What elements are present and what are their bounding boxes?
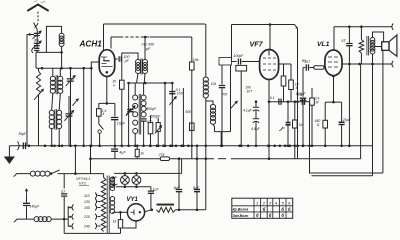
resistor R box lower <box>190 123 195 131</box>
svg-text:130: 130 <box>84 200 90 204</box>
capacitor C 4.1uF coupling <box>255 102 257 108</box>
svg-text:220: 220 <box>83 215 90 219</box>
dial lamp 2 <box>132 176 141 185</box>
svg-text:B9: B9 <box>302 59 306 63</box>
svg-text:4,1µF: 4,1µF <box>243 109 253 113</box>
resistor grid leak box <box>236 65 247 71</box>
wire osc bottom row <box>213 124 231 131</box>
resistor R screen box2 <box>290 64 292 80</box>
capacitor C 8uF filter2 <box>196 146 198 189</box>
capacitor C 0.1 on column <box>169 92 175 94</box>
oscillator coil L4 <box>203 77 208 82</box>
output terminal top <box>392 24 393 30</box>
svg-text:1: 1 <box>256 200 258 205</box>
svg-text:27k: 27k <box>158 153 165 157</box>
svg-text:0,1: 0,1 <box>270 96 275 100</box>
wire mains1 to transformer <box>64 173 103 175</box>
svg-text:25µF: 25µF <box>342 118 352 122</box>
wire lamp bottom row <box>116 186 151 188</box>
trimmer arrow mid <box>170 97 177 105</box>
wire column x165 <box>164 83 166 146</box>
capacitor C 10T grid VL1 <box>306 64 308 70</box>
svg-text:VF7: VF7 <box>250 40 264 49</box>
resistor R 27k pill <box>160 157 169 161</box>
capacitor C 700 osc <box>221 65 223 85</box>
wire VF7 top cap drop <box>269 25 271 50</box>
resistor R 1k VY1 filament <box>120 212 122 219</box>
power transformer HT winding <box>110 197 115 202</box>
svg-text:10µF: 10µF <box>117 121 126 125</box>
svg-text:240: 240 <box>83 225 90 229</box>
capacitor C 0.1 detector <box>279 99 281 105</box>
wire VL1 cathode <box>333 77 335 102</box>
power transformer T3 primary <box>101 178 106 232</box>
wire drop to IF coil <box>144 37 146 60</box>
wire left antenna branch <box>27 35 30 142</box>
voltage selector plug contacts <box>67 206 69 226</box>
wire detector row y101.7 <box>269 101 310 103</box>
wire VL1 grid row <box>303 67 305 69</box>
wire VF7 cathode <box>268 80 270 159</box>
wire top rail loop3 <box>334 26 392 28</box>
capacitor C 100uF coupling <box>119 56 121 62</box>
wire osc column <box>205 98 207 210</box>
wire lamp top row <box>114 172 182 174</box>
trimmer capacitor antenna C4 <box>36 36 38 44</box>
svg-text:б: б <box>256 213 259 218</box>
resistor R 1.5k cathode <box>98 103 100 108</box>
wire VY1 bottom <box>123 221 136 228</box>
capacitor C ground connector 30pF <box>18 142 20 151</box>
wire cathode network row <box>325 101 341 103</box>
loudspeaker <box>382 42 389 51</box>
variable capacitor C2 tuning <box>68 96 70 114</box>
resistor R 450 cathode <box>324 102 326 120</box>
power transformer core <box>106 176 108 234</box>
svg-text:4,5µF: 4,5µF <box>251 127 261 131</box>
wire ACH1 grid column <box>91 62 99 146</box>
svg-text:k: k <box>113 83 115 87</box>
tuned coil L2a/L2b with core <box>52 68 54 76</box>
wire speaker link <box>375 46 382 48</box>
svg-text:VY1: VY1 <box>127 197 139 203</box>
tuned coil L3a/L3b with core <box>49 110 54 115</box>
svg-text:600pF: 600pF <box>146 107 157 111</box>
wire VY1 output <box>145 210 152 212</box>
trimmer capacitor 600pF <box>127 110 133 112</box>
svg-text:VL1: VL1 <box>317 41 330 48</box>
switch tone <box>99 116 104 129</box>
svg-text:1k: 1k <box>113 220 117 224</box>
capacitor C 300 across winding <box>141 119 147 121</box>
resistor R 1k box <box>136 146 138 150</box>
trimmer capacitor antenna C3 <box>34 33 40 35</box>
svg-text:110: 110 <box>84 194 90 198</box>
wire column x172 <box>171 83 173 146</box>
wire columns to bus right section <box>220 132 222 146</box>
wire line B y158.7 <box>90 146 92 174</box>
wire top rail loop1 <box>104 23 206 25</box>
mains lead 2 <box>14 219 34 222</box>
svg-text:Зап.Волн: Зап.Волн <box>233 214 249 218</box>
capacitor C 25uF cathode <box>341 102 343 122</box>
capacitor series antenna <box>36 46 38 49</box>
svg-text:10k: 10k <box>193 58 199 62</box>
capacitor C 4uF <box>114 146 116 149</box>
wire column bus to mains <box>74 146 76 174</box>
resistor R 2.4 box <box>311 88 313 98</box>
mains switch <box>52 170 65 174</box>
wire coil L2 to L3 <box>52 93 53 110</box>
capacitor C 8uF filter1 <box>178 159 180 189</box>
tube VL1 electrodes <box>328 57 338 67</box>
antenna coupling coil L1 <box>46 26 61 52</box>
wire ACH1 cathode <box>106 77 108 104</box>
wire rail1 right drop (oscillator feed) <box>205 24 207 77</box>
svg-text:10T: 10T <box>246 90 253 94</box>
oscillator coil L5 <box>206 101 213 104</box>
wire plate row VL1 y64 <box>342 63 392 65</box>
wire top rail loop2 <box>232 25 298 29</box>
resistor R 10k osc <box>190 62 195 70</box>
svg-text:4µF: 4µF <box>119 150 126 154</box>
dial lamp 1 <box>121 176 130 185</box>
wire cathode network <box>99 102 115 104</box>
wire bottom return <box>64 232 120 234</box>
wire grid return row <box>129 82 173 84</box>
rectifier tube VY1 <box>127 204 144 221</box>
svg-text:б: б <box>288 207 291 212</box>
antenna <box>28 5 48 11</box>
svg-text:б: б <box>263 207 266 212</box>
wire AVC line y37 <box>111 36 120 38</box>
ground bus <box>9 145 372 147</box>
wire line B right riser <box>360 64 362 159</box>
potentiometer R1 <box>38 68 40 71</box>
mains lead 1 <box>14 174 31 177</box>
resistor R screen box1 <box>283 64 285 76</box>
wire osc column from line D <box>191 37 193 62</box>
svg-text:M: M <box>316 100 319 104</box>
IF transformer T1 lower windings <box>134 83 136 95</box>
wire node row y68 <box>36 67 91 69</box>
tube VF7 electrodes <box>268 51 270 56</box>
svg-text:1µF: 1µF <box>153 187 160 191</box>
wire rail1 left drop to ACH1 top <box>103 24 105 51</box>
wire AVC line left drop to ACH1 <box>110 37 112 49</box>
tube ACH1 <box>99 50 115 77</box>
svg-text:100: 100 <box>177 92 183 96</box>
wire transformer to bus <box>372 64 374 146</box>
svg-text:Кр.Волна: Кр.Волна <box>233 208 249 212</box>
tube VL1 <box>325 50 342 76</box>
resistor box R <box>150 115 152 122</box>
wire AVC feed column <box>128 83 130 146</box>
tube VF7 <box>260 50 279 80</box>
wire HT to VY1 <box>112 211 127 213</box>
wire VF7 grid row <box>232 61 237 63</box>
wire VF7 plate row <box>279 63 284 65</box>
wire IF windings to row <box>137 74 146 84</box>
resistor R grid stopper pill <box>310 67 314 69</box>
box coupling <box>219 58 232 66</box>
padder trimmer <box>156 123 160 132</box>
IF transformer T1 upper windings <box>136 60 141 65</box>
wire output bus <box>176 209 206 211</box>
svg-text:ACH1: ACH1 <box>79 40 103 49</box>
svg-text:б: б <box>281 213 284 218</box>
wire antenna to stack <box>36 30 38 34</box>
svg-text:mb 300: mb 300 <box>142 43 156 47</box>
capacitor C 10uF cathode <box>114 103 116 116</box>
svg-text:VY1: VY1 <box>79 182 86 186</box>
wire loop2 left drop <box>231 25 233 62</box>
capacitor C 1uF filter <box>150 187 152 191</box>
svg-text:б: б <box>281 207 284 212</box>
tube ACH1 electrodes <box>101 57 113 67</box>
capacitor C 140uF line filter <box>26 206 28 219</box>
wire VL1 top cap drop <box>333 27 335 51</box>
wire line C y173 <box>310 102 383 173</box>
wire cap to tube <box>242 61 260 63</box>
output transformer T2 <box>370 38 375 43</box>
band switch table <box>232 198 293 218</box>
switch S1 antenna <box>34 23 38 30</box>
wire column x183 <box>182 88 184 146</box>
wire speaker bottom drop <box>382 50 384 173</box>
wire loop2 right drop <box>297 29 299 102</box>
resistor R 10k <box>120 80 125 89</box>
svg-text:0,5: 0,5 <box>297 93 302 97</box>
svg-text:140µF: 140µF <box>29 205 40 209</box>
wire line C2 <box>312 175 373 177</box>
filter resistor with bar <box>157 204 175 206</box>
capacitor C 5T <box>348 27 350 43</box>
capacitor C 4.5uF coupling <box>253 119 259 123</box>
wire column x297 from rail <box>297 102 299 159</box>
wire transformer top to speaker <box>373 32 384 42</box>
svg-text:1k: 1k <box>140 151 144 155</box>
wire plate column <box>121 59 123 80</box>
trimmer arrow osc <box>231 101 238 108</box>
svg-text:VF7/VL1: VF7/VL1 <box>76 177 90 181</box>
wire transformer bottom <box>372 54 374 64</box>
svg-text:30k: 30k <box>34 39 40 43</box>
wire antenna lead-in (dashed) <box>37 12 39 22</box>
capacitor C 100pF detector <box>302 99 304 105</box>
heater plug arrows <box>112 176 117 178</box>
resistor R output shunt <box>360 27 362 40</box>
capacitor C 1u electrolytic <box>287 102 289 123</box>
svg-text:155: 155 <box>84 206 90 210</box>
wire right columns of input block <box>83 68 85 146</box>
svg-text:Ω: Ω <box>317 123 320 127</box>
variable capacitor C1 tuning <box>70 68 72 78</box>
svg-text:б: б <box>269 213 272 218</box>
svg-text:100pF: 100pF <box>233 54 244 58</box>
svg-text:pF: pF <box>145 47 151 51</box>
svg-text:8µF: 8µF <box>193 186 200 190</box>
power transformer heater winding <box>110 177 115 182</box>
ground symbol <box>8 146 10 157</box>
wire ACH1 plate to IF primary <box>122 53 138 60</box>
output terminal bottom <box>392 61 393 67</box>
svg-text:5T: 5T <box>341 39 346 43</box>
resistor R 1M <box>294 102 296 120</box>
wire column x349 to bus <box>348 64 350 146</box>
svg-text:8µF: 8µF <box>174 186 181 190</box>
wire ACH1 plate <box>115 58 118 60</box>
svg-text:10k: 10k <box>211 82 217 86</box>
node antenna junction <box>29 33 31 35</box>
capacitor C 100pF grid <box>238 59 240 65</box>
junction dots on ground bus <box>28 145 31 148</box>
wire antenna row y52 <box>36 51 62 53</box>
svg-text:30pF: 30pF <box>18 132 27 136</box>
AVC arrow <box>72 99 78 106</box>
capacitor C 5T mains <box>63 174 65 189</box>
svg-text:500: 500 <box>186 110 192 114</box>
